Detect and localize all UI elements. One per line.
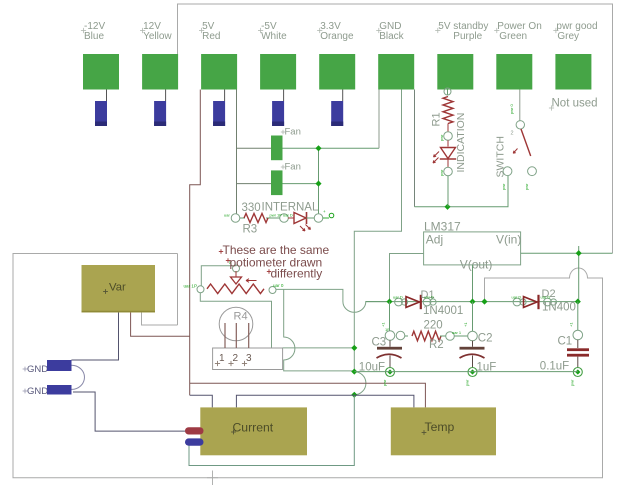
svg-text:Adj: Adj (426, 233, 443, 247)
svg-text:INDICATION: INDICATION (455, 113, 467, 173)
svg-text:uar: uar (224, 213, 230, 218)
svg-text:LM317: LM317 (424, 220, 461, 234)
svg-text:White: White (261, 31, 287, 42)
svg-text:uar D: uar D (393, 295, 403, 300)
svg-text:1: 1 (219, 353, 225, 364)
svg-text:Black: Black (379, 31, 404, 42)
svg-text:R3: R3 (243, 224, 258, 236)
svg-text:pwr: pwr (465, 379, 470, 386)
svg-text:uar D: uar D (512, 295, 522, 300)
svg-text:uar 1P: uar 1P (184, 284, 198, 289)
svg-text:Temp: Temp (425, 420, 455, 434)
svg-text:2: 2 (511, 131, 514, 137)
svg-text:pwr: pwr (439, 134, 444, 141)
svg-text:Orange: Orange (320, 31, 354, 42)
svg-text:Green: Green (499, 31, 527, 42)
svg-text:uar 0: uar 0 (273, 283, 284, 288)
svg-text:uar 1: uar 1 (452, 330, 462, 335)
svg-text:Blue: Blue (84, 31, 104, 42)
svg-text:Current: Current (233, 421, 274, 435)
svg-text:+1: +1 (569, 322, 574, 327)
svg-text:V(out): V(out) (460, 258, 493, 272)
svg-text:pwr: pwr (439, 169, 444, 176)
svg-text:Fan: Fan (285, 127, 301, 138)
svg-text:Yellow: Yellow (143, 31, 172, 42)
svg-text:Grey: Grey (557, 31, 579, 42)
svg-text:R2: R2 (429, 339, 444, 351)
svg-text:R4: R4 (234, 311, 248, 323)
svg-text:2: 2 (233, 353, 239, 364)
svg-text:+1: +1 (463, 322, 468, 327)
svg-text:R1: R1 (431, 112, 443, 126)
svg-text:GND: GND (27, 386, 48, 397)
svg-text:C3: C3 (372, 337, 387, 349)
svg-text:220: 220 (424, 320, 443, 332)
svg-text:pwr 1P uar D: pwr 1P uar D (270, 213, 293, 218)
svg-text:pwr 0: pwr 0 (509, 103, 514, 114)
svg-text:uar D: uar D (541, 295, 551, 300)
svg-text:+1: +1 (381, 322, 386, 327)
svg-text:uar D: uar D (424, 295, 434, 300)
svg-text:Purple: Purple (453, 31, 482, 42)
svg-text:1N400: 1N400 (542, 302, 576, 314)
svg-text:pwr: pwr (570, 379, 575, 386)
svg-text:C2: C2 (478, 333, 493, 345)
svg-text:C1: C1 (558, 336, 573, 348)
svg-text:V(in): V(in) (496, 233, 521, 247)
svg-text:Fan: Fan (285, 162, 301, 173)
svg-text:pwr: pwr (524, 183, 529, 190)
svg-text:Not used: Not used (552, 98, 598, 110)
svg-text:0.1uF: 0.1uF (540, 361, 569, 373)
svg-text:1N4001: 1N4001 (423, 305, 463, 317)
svg-text:pwr: pwr (382, 379, 387, 386)
svg-text:Red: Red (202, 31, 220, 42)
svg-text:3: 3 (246, 353, 252, 364)
svg-text:+: + (323, 209, 326, 214)
svg-text:differently: differently (271, 267, 323, 281)
svg-text:Var: Var (109, 282, 126, 294)
svg-text:SWITCH: SWITCH (495, 136, 507, 177)
svg-text:330: 330 (242, 202, 261, 214)
svg-text:pwr: pwr (501, 183, 506, 190)
svg-text:GND: GND (27, 364, 48, 375)
